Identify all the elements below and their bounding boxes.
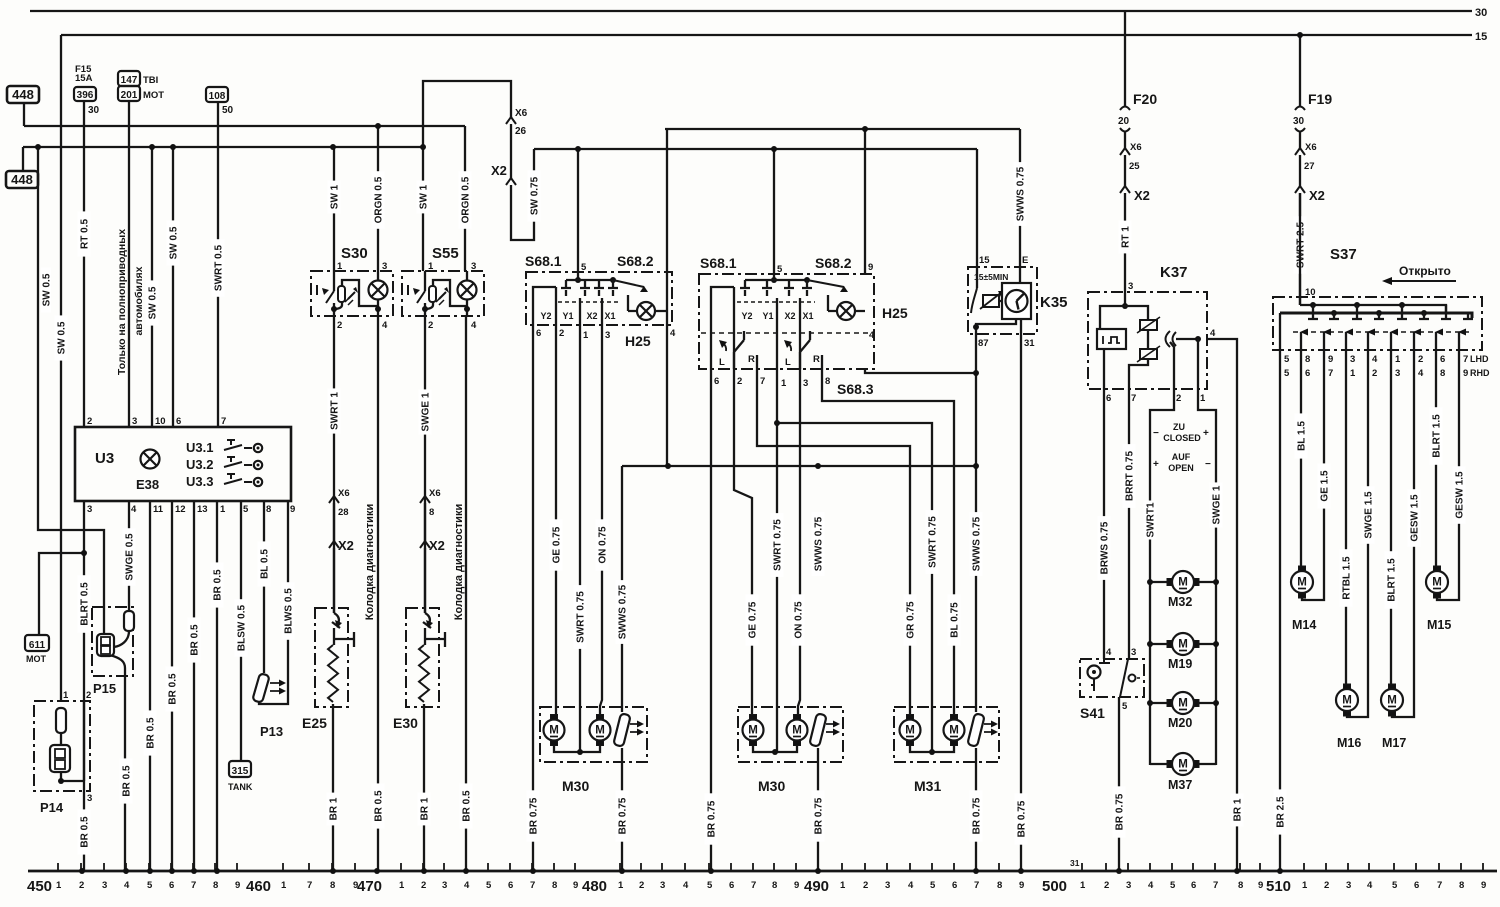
svg-text:Y2: Y2 — [741, 311, 752, 321]
svg-text:R: R — [813, 354, 820, 365]
svg-text:2: 2 — [87, 416, 92, 427]
svg-text:P15: P15 — [93, 681, 116, 696]
svg-text:ZU: ZU — [1173, 422, 1185, 432]
svg-text:SWRT1: SWRT1 — [1146, 502, 1157, 537]
wire BR 1 E30 to rail — [423, 704, 425, 871]
label BR 0.5 on wire x=84 — [78, 809, 91, 854]
motor M14 — [1291, 571, 1313, 593]
svg-text:M15: M15 — [1427, 618, 1451, 632]
svg-text:S68.2: S68.2 — [815, 255, 852, 271]
label BR 0.75 on wire x=533 — [527, 790, 540, 841]
S37 wiper dashed line — [1293, 331, 1470, 333]
svg-text:13: 13 — [197, 504, 208, 515]
svg-text:H25: H25 — [882, 305, 908, 321]
svg-text:5: 5 — [1170, 880, 1176, 891]
svg-text:7: 7 — [221, 416, 226, 427]
svg-text:GE 0.75: GE 0.75 — [748, 601, 759, 638]
svg-text:ON 0.75: ON 0.75 — [598, 526, 609, 564]
svg-text:Y1: Y1 — [562, 311, 573, 321]
wire F20 to X6 — [1124, 131, 1126, 149]
svg-text:X2: X2 — [784, 311, 795, 321]
svg-text:BR 0.75: BR 0.75 — [707, 800, 718, 837]
svg-text:2: 2 — [1418, 354, 1423, 365]
svg-text:SW 1: SW 1 — [330, 184, 341, 209]
motor M16 — [1336, 689, 1358, 711]
svg-text:BR 0.75: BR 0.75 — [814, 797, 825, 834]
wire BR 0.5 U3 pin 13 to ground rail — [193, 501, 195, 871]
wire BRWS 0.75 K37 pin 6 to S41 pin 4 — [1103, 389, 1105, 659]
svg-text:8: 8 — [266, 504, 271, 515]
svg-text:9: 9 — [794, 880, 799, 891]
svg-text:M: M — [595, 725, 605, 737]
svg-text:9: 9 — [1463, 368, 1468, 379]
K37 node pin3 — [1122, 303, 1128, 309]
svg-text:7: 7 — [1213, 880, 1218, 891]
label BR 0.5 on wire x=378 — [372, 783, 385, 828]
label SWGE 1 on wire x=425 — [419, 389, 432, 434]
svg-text:5: 5 — [1122, 701, 1128, 712]
svg-text:8: 8 — [772, 880, 777, 891]
label SWRT 0.5 on wire x=218 — [212, 239, 225, 297]
svg-text:X2: X2 — [586, 311, 597, 321]
wire bus y129 feeding H25 lamps and K35-E — [665, 128, 1020, 130]
wire BLRT 1.5 S37 to M15 — [1435, 350, 1437, 571]
label SWRT 1 on wire x=334 — [328, 388, 341, 433]
label SWRT 0.75 on wire x=777 — [771, 513, 784, 577]
svg-text:SW 0.75: SW 0.75 — [530, 176, 541, 215]
label BR 0.5 on wire x=217 — [211, 562, 224, 607]
label SW 1 on wire x=423 — [417, 181, 430, 214]
svg-text:Y1: Y1 — [762, 311, 773, 321]
wire H25 first pin 9 feed / pin 4 drop — [666, 129, 668, 466]
wire BL 1.5 S37 to M14 — [1300, 350, 1302, 571]
svg-text:2: 2 — [559, 328, 564, 339]
label BR 1 on wire x=1237 — [1231, 794, 1244, 827]
svg-text:M31: M31 — [914, 778, 941, 794]
wire SWRT 0.5 from 108 to U3 pin 7 — [217, 102, 219, 427]
P15 resistor — [124, 611, 134, 631]
svg-text:X2: X2 — [429, 538, 445, 553]
label GE 0.75 on wire x=556 — [550, 519, 563, 570]
svg-text:SW 0.5: SW 0.5 — [57, 321, 68, 354]
svg-text:10: 10 — [1305, 287, 1316, 298]
ladder junctions M19 — [1147, 641, 1153, 647]
svg-text:1: 1 — [781, 378, 787, 389]
svg-text:X6: X6 — [429, 488, 441, 499]
svg-text:SWGE 1: SWGE 1 — [421, 392, 432, 431]
svg-text:M37: M37 — [1168, 778, 1192, 792]
svg-text:Y2: Y2 — [540, 311, 551, 321]
svg-text:4: 4 — [131, 504, 137, 515]
wire ON 0.75 S68 pin 3 to M30 right motor — [600, 325, 602, 714]
svg-text:4: 4 — [124, 880, 130, 891]
svg-text:5: 5 — [707, 880, 713, 891]
motor M32 — [1172, 571, 1194, 593]
wire SWGE 1 K37 pin 1 to motor ladder right rail — [1198, 389, 1216, 765]
svg-text:S68.3: S68.3 — [837, 381, 874, 397]
svg-text:4: 4 — [1372, 354, 1378, 365]
svg-text:+: + — [1203, 428, 1209, 439]
svg-text:MOT: MOT — [143, 90, 164, 101]
label SWWS 0.75 on wire x=818 — [812, 512, 825, 576]
svg-text:2: 2 — [1104, 880, 1109, 891]
wire SWWS 0.75 K35 pin 87 to M31 resistor — [975, 334, 977, 712]
wire GE 0.75 S68 pin 2 to M30 second left motor — [734, 369, 752, 714]
svg-text:BLRT 0.5: BLRT 0.5 — [80, 582, 91, 626]
label BR 0.5 on wire x=466 — [460, 783, 473, 828]
svg-text:4: 4 — [1148, 880, 1154, 891]
svg-text:CLOSED: CLOSED — [1163, 433, 1201, 443]
label BLRT 1.5 on wire x=1391 — [1385, 551, 1398, 609]
wire SWWS 0.75 bus y466 — [622, 465, 976, 467]
svg-text:X1: X1 — [604, 311, 615, 321]
label ON 0.75 on wire x=602 — [596, 519, 609, 570]
direction switch S68.1/S68.2 second box — [699, 274, 874, 369]
svg-text:−: − — [1205, 459, 1211, 470]
wire GE 0.75 S68 pin 2 to M30 left motor — [555, 325, 557, 714]
label SWRT1 on wire x=1150 — [1144, 501, 1157, 540]
K35 junction at 87 — [973, 324, 979, 330]
svg-text:OPEN: OPEN — [1168, 463, 1194, 473]
connector X6 pin 27 — [1295, 148, 1305, 155]
wire BR 0.75 S68 second pin 6 to rail — [710, 369, 712, 871]
label BR 0.75 on wire x=976 — [970, 790, 983, 841]
svg-text:10: 10 — [155, 416, 166, 427]
P14 internal wire — [61, 701, 84, 791]
svg-text:M: M — [905, 725, 915, 737]
svg-text:BR 0.75: BR 0.75 — [618, 797, 629, 834]
label BL 0.75 on wire x=954 — [948, 594, 961, 645]
wire RTBL 1.5 S37 to M16 — [1345, 350, 1347, 689]
K37 pin1 riser — [1197, 339, 1199, 389]
svg-text:9: 9 — [1481, 880, 1486, 891]
svg-text:BR 0.75: BR 0.75 — [529, 797, 540, 834]
svg-text:P13: P13 — [260, 724, 283, 739]
label BR 0.75 on wire x=1021 — [1015, 793, 1028, 844]
label GESW 1.5 on wire x=1459 — [1453, 466, 1466, 524]
svg-text:9: 9 — [1258, 880, 1263, 891]
svg-text:4: 4 — [1367, 880, 1373, 891]
svg-text:3: 3 — [382, 261, 387, 272]
K35 internal return wire — [976, 319, 1016, 334]
lamp symbol in U3 — [141, 450, 160, 469]
connector X6 pin 26 (top jumper) — [506, 117, 516, 124]
svg-text:6: 6 — [1440, 354, 1445, 365]
S68.3 left switch pair — [734, 331, 757, 369]
label GR 0.75 on wire x=910 — [904, 594, 917, 645]
svg-text:BR 0.5: BR 0.5 — [190, 624, 201, 656]
K35 coil — [983, 295, 999, 307]
label BR 1 on wire x=333 — [327, 793, 340, 826]
svg-text:2: 2 — [428, 320, 433, 331]
svg-text:X2: X2 — [1309, 188, 1325, 203]
svg-text:BR 0.75: BR 0.75 — [972, 797, 983, 834]
svg-text:SWGE 1: SWGE 1 — [1212, 485, 1223, 524]
svg-text:GR 0.75: GR 0.75 — [906, 601, 917, 639]
svg-text:30: 30 — [1475, 7, 1487, 19]
ladder junctions M32 — [1147, 579, 1153, 585]
label BR 1 on wire x=424 — [418, 793, 431, 826]
svg-text:7: 7 — [191, 880, 196, 891]
svg-text:7: 7 — [760, 376, 765, 387]
svg-text:6: 6 — [1305, 368, 1310, 379]
wire BL 0.5 U3 pin 8 to P13 — [263, 501, 265, 673]
svg-text:9: 9 — [1019, 880, 1024, 891]
svg-text:201: 201 — [121, 90, 138, 101]
svg-text:ORGN 0.5: ORGN 0.5 — [461, 176, 472, 223]
switch S30 (lamp + switch) — [311, 271, 393, 316]
svg-text:3: 3 — [1395, 368, 1400, 379]
svg-text:5: 5 — [930, 880, 936, 891]
svg-text:AUF: AUF — [1172, 452, 1191, 462]
svg-text:BLRT 1.5: BLRT 1.5 — [1432, 414, 1443, 458]
wire BR 0.5 S30 pin 4 to rail — [377, 316, 379, 871]
svg-text:K37: K37 — [1160, 264, 1188, 281]
label SW 0.75 on wire x=534 — [528, 170, 541, 221]
ground rail terminal 31 — [28, 870, 1497, 873]
switch S55 (lamp + switch) — [402, 271, 484, 316]
wire SWRT 1 S30 pin 2 to E25 — [333, 316, 335, 613]
svg-text:31: 31 — [1024, 338, 1035, 349]
wire GESW 1.5 M17 return to S37 — [1392, 350, 1414, 717]
svg-text:BLWS 0.5: BLWS 0.5 — [284, 588, 295, 634]
svg-text:1: 1 — [220, 504, 226, 515]
svg-text:M14: M14 — [1292, 618, 1316, 632]
label BR 0.75 on wire x=1119 — [1113, 786, 1126, 837]
svg-text:2: 2 — [421, 880, 426, 891]
svg-text:BR 0.5: BR 0.5 — [80, 816, 91, 848]
sensor P14 box — [34, 701, 90, 791]
svg-text:5: 5 — [777, 264, 783, 275]
svg-text:BR 0.75: BR 0.75 — [1115, 793, 1126, 830]
motor M20 — [1172, 692, 1194, 714]
connector 448 upper — [7, 86, 39, 103]
wire BLWS 0.5 U3 pin 9 to P13 return — [259, 501, 288, 704]
svg-text:1: 1 — [1302, 880, 1308, 891]
label SW 0.5 near wire x=46 — [41, 267, 51, 312]
P14 resistor — [56, 708, 66, 733]
svg-text:3: 3 — [1128, 281, 1133, 292]
svg-text:9: 9 — [235, 880, 240, 891]
svg-text:9: 9 — [290, 504, 295, 515]
svg-text:3: 3 — [471, 261, 476, 272]
wire SW 0.5 branch to P15 connector — [38, 147, 104, 634]
svg-text:BR 0.5: BR 0.5 — [122, 765, 133, 797]
svg-text:2: 2 — [337, 320, 342, 331]
svg-text:3: 3 — [1346, 880, 1351, 891]
svg-text:SW 1: SW 1 — [419, 184, 430, 209]
svg-text:GE 0.75: GE 0.75 — [552, 526, 563, 563]
svg-text:Открыто: Открыто — [1399, 264, 1451, 278]
svg-text:4: 4 — [908, 880, 914, 891]
wire RT 0.5 fuse F15 to U3 pin 2 — [83, 101, 85, 427]
svg-text:500: 500 — [1042, 878, 1067, 895]
svg-text:2: 2 — [1176, 393, 1181, 404]
svg-text:4: 4 — [869, 330, 875, 341]
label BR 0.5 on wire x=172 — [166, 666, 179, 711]
S68.3 internal divider — [701, 332, 872, 334]
svg-text:8: 8 — [1459, 880, 1464, 891]
S37 upper bus — [1300, 193, 1446, 313]
svg-text:M: M — [1342, 695, 1352, 707]
label BR 2.5 on wire x=1280 — [1274, 789, 1287, 834]
svg-text:1: 1 — [1080, 880, 1086, 891]
svg-text:M: M — [1432, 577, 1442, 589]
svg-text:30: 30 — [1293, 116, 1305, 127]
svg-text:U3.3: U3.3 — [186, 474, 213, 489]
svg-text:1: 1 — [583, 330, 589, 341]
wire K35 pin 15 drop — [976, 149, 978, 288]
svg-text:11: 11 — [153, 504, 164, 515]
svg-text:450: 450 — [27, 878, 52, 895]
svg-text:K35: K35 — [1040, 294, 1068, 311]
svg-text:3: 3 — [102, 880, 107, 891]
connector 201 MOT — [118, 86, 140, 101]
svg-text:E25: E25 — [302, 715, 327, 731]
svg-text:BLSW 0.5: BLSW 0.5 — [237, 605, 248, 652]
svg-text:SWWS 0.75: SWWS 0.75 — [814, 516, 825, 571]
direction switch S68.1/S68.2 first box — [526, 272, 672, 325]
svg-text:1: 1 — [428, 261, 434, 272]
wire SWRT 0.75 S68 pin 1 to M30 centre — [579, 325, 581, 752]
svg-text:X6: X6 — [1130, 142, 1142, 153]
wire from line y147 to connector 448 lower — [22, 147, 24, 171]
svg-text:U3.1: U3.1 — [186, 440, 213, 455]
svg-text:E38: E38 — [136, 477, 159, 492]
svg-text:1: 1 — [337, 261, 343, 272]
svg-text:480: 480 — [582, 878, 607, 895]
wire BR 0.75 M30 second resistor to rail — [817, 748, 819, 871]
svg-text:4: 4 — [670, 328, 676, 339]
wire GESW 1.5 M15 return to S37 — [1437, 350, 1459, 600]
label BRRT 0.75 on wire x=1129 — [1123, 444, 1136, 508]
svg-text:27: 27 — [1304, 161, 1315, 172]
label SWWS 0.75 on wire x=1020 — [1014, 162, 1027, 226]
svg-text:31: 31 — [1070, 858, 1080, 868]
svg-text:автомобилях: автомобилях — [133, 266, 145, 335]
S37 main bus — [1280, 313, 1472, 318]
S41 contact — [1099, 659, 1110, 663]
P15 internal wire — [110, 631, 129, 668]
S37 main bus nodes — [1331, 310, 1337, 316]
svg-text:6: 6 — [729, 880, 734, 891]
label SWRT 0.75 on wire x=932 — [926, 510, 939, 574]
svg-text:H25: H25 — [625, 333, 651, 349]
svg-text:15A: 15A — [75, 73, 93, 84]
svg-text:L: L — [785, 357, 791, 368]
svg-text:50: 50 — [222, 105, 234, 116]
svg-text:3: 3 — [87, 793, 92, 804]
wire P14 ground BR 0.5 — [83, 791, 85, 871]
wire line 30 (battery bus) — [30, 10, 1472, 12]
S68.3 right switch pair — [800, 331, 822, 369]
wire H25 second pin 4 to K35-87 node — [865, 369, 976, 373]
wire BLRT 1.5 S37 to M17 — [1390, 350, 1392, 689]
svg-text:7: 7 — [530, 880, 535, 891]
wire SWGE 1.5 M16 return to S37 — [1347, 350, 1368, 717]
wire S68 second pin 9 feed — [864, 129, 866, 274]
wire BR 0.75 M30 first resistor to rail — [621, 748, 623, 871]
wire BLSW 0.5 U3 pin 5 to 315 TANK — [240, 501, 242, 761]
label BRWS 0.75 on wire x=1104 — [1098, 516, 1111, 580]
wiper motor group M30 second — [738, 707, 843, 762]
svg-text:8: 8 — [330, 880, 335, 891]
svg-text:BR 0.5: BR 0.5 — [462, 790, 473, 822]
connector 396 — [74, 87, 96, 101]
motor M15 — [1426, 571, 1448, 593]
svg-text:X6: X6 — [515, 108, 528, 119]
svg-text:+: + — [1153, 459, 1159, 470]
svg-text:MOT: MOT — [26, 654, 46, 664]
wire from connector 448 to line y126 — [23, 103, 25, 126]
svg-text:Колодка диагностики: Колодка диагностики — [453, 504, 465, 620]
connector X2 (F19 branch) — [1295, 186, 1305, 193]
svg-text:2: 2 — [86, 690, 91, 701]
label SWGE 0.5 on wire x=129 — [123, 528, 136, 586]
label SW 0.5 on wire x=173 — [167, 220, 180, 265]
svg-text:ORGN 0.5: ORGN 0.5 — [374, 176, 385, 223]
svg-text:M: M — [1297, 577, 1307, 589]
wire BR 1 K37 pin 4 to rail — [1207, 339, 1237, 871]
wire S68 second pin 5 feed — [773, 149, 775, 280]
svg-text:P14: P14 — [40, 800, 64, 815]
svg-text:6: 6 — [952, 880, 957, 891]
svg-text:396: 396 — [77, 90, 94, 101]
svg-text:1: 1 — [281, 880, 287, 891]
label ORGN 0.5 on wire x=378 — [372, 171, 385, 229]
svg-text:7: 7 — [751, 880, 756, 891]
svg-text:3: 3 — [1126, 880, 1131, 891]
label ORGN 0.5 on wire x=465 — [459, 171, 472, 229]
label BR 0.5 on wire x=126 — [120, 758, 133, 803]
svg-text:470: 470 — [357, 878, 382, 895]
svg-text:SWRT 0.75: SWRT 0.75 — [576, 591, 587, 643]
svg-text:S68.2: S68.2 — [617, 253, 654, 269]
svg-text:5: 5 — [243, 504, 249, 515]
svg-text:3: 3 — [442, 880, 447, 891]
svg-text:−: − — [1153, 428, 1159, 439]
wire BR 0.75 M31 resistor to rail — [975, 748, 977, 871]
svg-text:M: M — [1178, 759, 1188, 771]
wire SW 0.5 to U3 pin 10 — [151, 147, 153, 427]
svg-text:F19: F19 — [1308, 91, 1332, 107]
wire connector X6-26 to X2 — [510, 124, 512, 178]
svg-text:BR 1: BR 1 — [1233, 798, 1244, 821]
svg-text:315: 315 — [232, 766, 249, 777]
svg-text:X2: X2 — [1134, 188, 1150, 203]
svg-text:4: 4 — [1106, 647, 1112, 658]
svg-text:BRWS 0.75: BRWS 0.75 — [1100, 521, 1111, 574]
svg-text:LHD: LHD — [1470, 354, 1489, 364]
label SWWS 0.75 on wire x=622 — [616, 580, 629, 644]
svg-text:8: 8 — [997, 880, 1002, 891]
label BR 0.75 on wire x=711 — [705, 793, 718, 844]
wire ORGN 0.5 to S55 pin 3 — [464, 126, 466, 271]
control unit U3/E38 box — [75, 427, 291, 501]
connector X2 (top jumper) — [506, 178, 516, 185]
relay K37 box — [1088, 292, 1207, 389]
wire BR 0.75 K35 pin 31 to rail — [1020, 319, 1022, 871]
svg-text:BRRT 0.75: BRRT 0.75 — [1125, 451, 1136, 501]
svg-text:1: 1 — [399, 880, 405, 891]
svg-text:GE 1.5: GE 1.5 — [1320, 470, 1331, 502]
wire SWRT 2.5 to S37 pin 10 — [1299, 193, 1301, 305]
switch S37 box — [1273, 297, 1482, 350]
wire BR 0.75 S41 pin 5 to rail — [1118, 697, 1120, 871]
svg-text:5: 5 — [486, 880, 492, 891]
svg-text:108: 108 — [209, 91, 226, 102]
svg-text:6: 6 — [536, 328, 541, 339]
